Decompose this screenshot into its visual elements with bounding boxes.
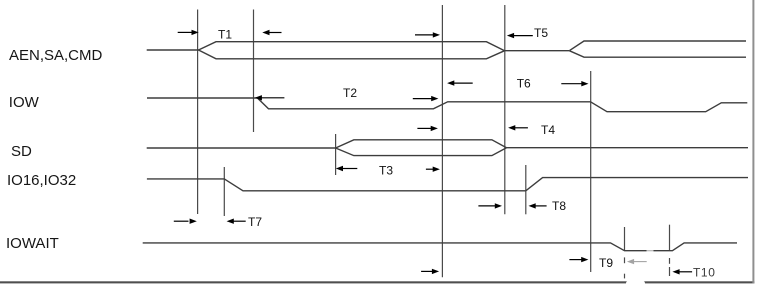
wire SD bus section (open/close): [336, 140, 507, 156]
wire SD single segment right: [507, 147, 749, 149]
svg-text:T9: T9: [599, 256, 613, 270]
tick at IOWAIT falling edge (x=624.5, dash-dot below trace): [624, 227, 626, 278]
svg-text:T10: T10: [693, 265, 715, 279]
arrow right into line3 (T3 right bound): [426, 168, 434, 170]
arrow right into line3 at IOWAIT bottom: [421, 270, 433, 272]
arrow left (T7): [233, 220, 246, 222]
tick at IO16 rising edge (x=525.8): [525, 165, 527, 214]
wire AEN,SA,CMD bus section 2 (to right edge): [569, 41, 746, 57]
svg-text:T4: T4: [541, 123, 555, 137]
arrow right into line4 (T8 left bound): [478, 205, 495, 207]
bottom border: [0, 281, 754, 283]
arrow left into SD tick (T3 left bound): [342, 168, 357, 170]
arrow right into line1 (T7 left bound): [174, 220, 189, 222]
arrow left into line4 (T5): [513, 35, 533, 37]
right border: [752, 0, 754, 283]
tick at IOWAIT rising edge (x=669.5, dash-dot below trace): [669, 225, 671, 276]
svg-text:T6: T6: [517, 77, 531, 91]
vertical reference line 5 (x=590.7): [590, 71, 592, 272]
wire SD single segment left: [147, 147, 336, 149]
white blob on bottom border: [626, 279, 645, 287]
arrow right into line3 (T4 left bound): [417, 127, 431, 129]
arrow left into line3 (T6 left bound): [453, 82, 473, 84]
wire AEN,SA,CMD single segment middle: [505, 50, 570, 52]
wire AEN,SA,CMD bus section 1 (open/close): [199, 42, 505, 59]
svg-text:T3: T3: [379, 163, 393, 177]
svg-text:T7: T7: [248, 215, 262, 229]
svg-text:T5: T5: [534, 26, 548, 40]
arrow right into line5 (T6 right bound): [561, 83, 582, 85]
arrow left into IOWAIT tick 2 (T10): [679, 271, 693, 273]
svg-text:AEN,SA,CMD: AEN,SA,CMD: [9, 47, 103, 64]
wire AEN,SA,CMD single segment left: [147, 49, 199, 51]
vertical reference line 4 (x=504.8): [504, 5, 506, 214]
vertical reference line 3 (x=442.4): [441, 5, 443, 277]
svg-text:T8: T8: [552, 199, 566, 213]
wire IO16,IO32 trace: [147, 178, 748, 191]
wire IOWAIT trace: [143, 243, 737, 251]
svg-text:T1: T1: [218, 28, 232, 42]
arrow right into line5 (T9): [569, 259, 582, 261]
svg-text:SD: SD: [11, 143, 32, 160]
arrow left into IO16 tick (T8): [535, 205, 547, 207]
arrow left into line4 (T4): [514, 127, 528, 129]
vertical reference line 1 (x=197.6): [197, 10, 199, 215]
svg-text:IOWAIT: IOWAIT: [6, 235, 59, 252]
arrow right into line1 (T1 left bound): [178, 31, 193, 33]
arrow right into line3 at IOW level (T2 right bound): [413, 98, 432, 100]
vertical reference line 2 (x=253.5): [253, 10, 255, 133]
wire IOWAIT faint low segment: [647, 250, 654, 252]
wire IOW trace: [147, 98, 747, 112]
svg-text:T2: T2: [343, 86, 357, 100]
svg-text:IOW: IOW: [9, 94, 40, 111]
arrow right into line3 at AEN level (T5 left bound): [415, 34, 434, 36]
arrow left (T1 right bound): [268, 32, 282, 34]
svg-text:IO16,IO32: IO16,IO32: [7, 172, 76, 189]
arrow faint left into IOWAIT tick: [633, 261, 647, 263]
arrow left into line2 at IOW level (T2 left bound): [261, 97, 284, 99]
tick at SD bus opening (x=335.6): [335, 134, 337, 175]
tick at IO16 falling edge (x=224.3): [223, 167, 225, 216]
